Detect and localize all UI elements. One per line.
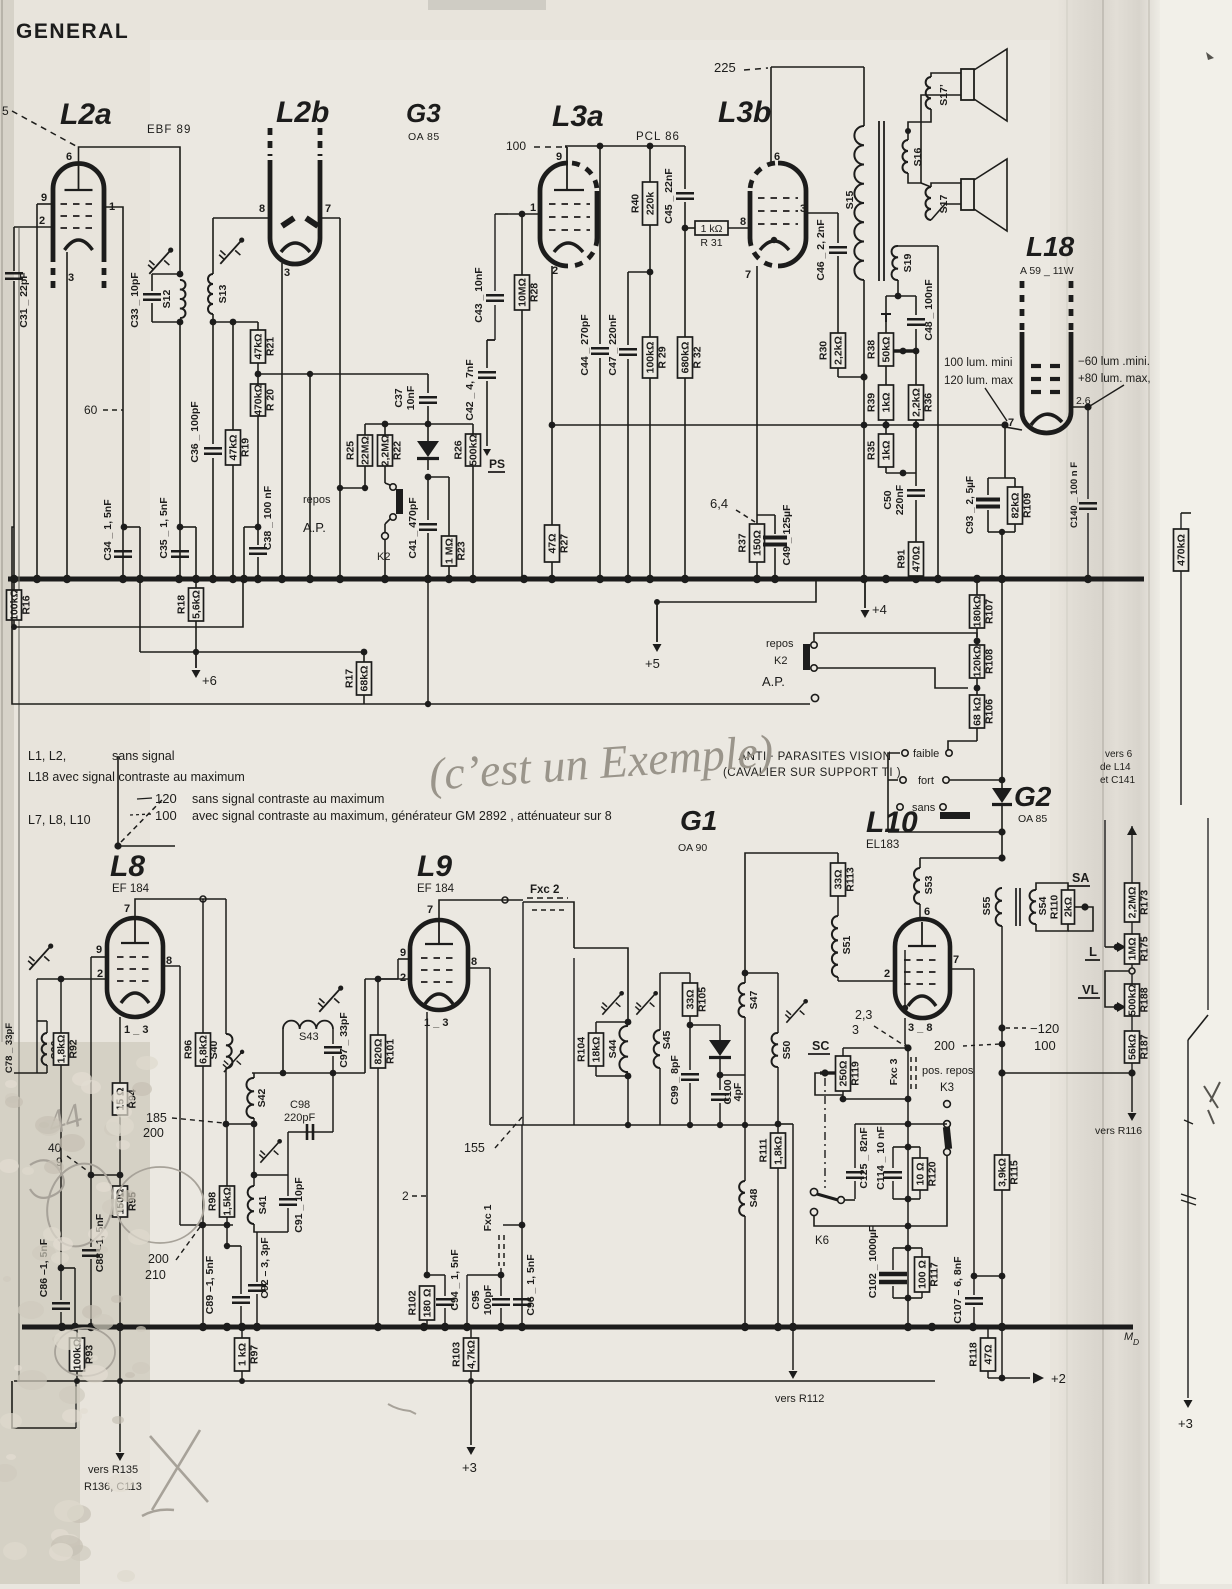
resistor R23 1M bbox=[428, 477, 468, 579]
svg-text:+5: +5 bbox=[645, 656, 660, 671]
wire Fxc1 column bbox=[519, 1125, 526, 1327]
pin 8 label bbox=[740, 216, 746, 228]
capacitor C93 2,5uF bbox=[965, 476, 1005, 534]
label -120 100 pointer bbox=[998, 1021, 1059, 1053]
wire L9 pin8 bbox=[468, 968, 490, 1125]
resistor R95 150 bbox=[113, 1175, 139, 1327]
svg-text:R175: R175 bbox=[1139, 936, 1151, 961]
resistor R94 15 bbox=[113, 1083, 139, 1175]
svg-text:vers 6: vers 6 bbox=[1105, 749, 1133, 760]
inductor S16 bbox=[903, 140, 925, 173]
inductor S43 tank bbox=[252, 1012, 365, 1077]
label SC bbox=[808, 1039, 830, 1054]
svg-text:S54: S54 bbox=[1037, 897, 1049, 916]
legend 120 bbox=[155, 791, 384, 806]
svg-text:6,4: 6,4 bbox=[710, 496, 728, 511]
wire L10 top lines bbox=[888, 832, 1002, 858]
resistor R109 82k bbox=[999, 478, 1034, 579]
svg-text:C99 _ 8pF: C99 _ 8pF bbox=[669, 1055, 681, 1105]
svg-text:L1, L2,: L1, L2, bbox=[28, 749, 66, 763]
svg-text:L3b: L3b bbox=[718, 96, 771, 129]
svg-text:vers R112: vers R112 bbox=[775, 1393, 824, 1405]
svg-text:K6: K6 bbox=[815, 1235, 829, 1247]
inductor S17 bbox=[921, 183, 950, 220]
svg-text:L: L bbox=[1089, 944, 1097, 959]
inductor S41 tank bbox=[248, 1175, 305, 1233]
svg-text:3: 3 bbox=[284, 267, 290, 279]
svg-text:R188: R188 bbox=[1139, 987, 1151, 1012]
svg-text:4pF: 4pF bbox=[732, 1082, 744, 1101]
svg-text:1,8kΩ: 1,8kΩ bbox=[773, 1136, 785, 1165]
resistor R106 68k bbox=[948, 688, 996, 750]
tube L3a label bbox=[552, 100, 604, 133]
label 155 pointer bbox=[464, 1116, 523, 1155]
svg-text:Fxc 1: Fxc 1 bbox=[482, 1204, 494, 1231]
legend L1 L2 sans signal bbox=[28, 749, 175, 763]
tube L2b bbox=[270, 128, 320, 264]
svg-text:3,9kΩ: 3,9kΩ bbox=[997, 1158, 1009, 1187]
svg-text:vers R135: vers R135 bbox=[88, 1464, 138, 1476]
svg-text:C34 _ 1, 5nF: C34 _ 1, 5nF bbox=[102, 499, 114, 561]
svg-text:R97: R97 bbox=[249, 1345, 261, 1364]
svg-text:S55: S55 bbox=[981, 897, 993, 916]
label 60 with pointer bbox=[84, 403, 123, 417]
svg-text:S44: S44 bbox=[607, 1040, 619, 1059]
tube L10 label bbox=[866, 806, 918, 851]
wire screen grid line bbox=[365, 421, 473, 428]
svg-text:180kΩ: 180kΩ bbox=[972, 596, 984, 628]
svg-text:G1: G1 bbox=[680, 805, 717, 836]
wire L tap line bbox=[1105, 820, 1126, 952]
svg-text:100: 100 bbox=[1034, 1038, 1056, 1053]
svg-text:C102 _ 1000µF: C102 _ 1000µF bbox=[867, 1225, 879, 1298]
pencil squiggle bbox=[30, 1160, 64, 1198]
svg-text:S41: S41 bbox=[257, 1196, 269, 1215]
svg-text:1: 1 bbox=[530, 202, 536, 214]
switch contact faible bbox=[902, 748, 952, 760]
wire S12 tank bottom bbox=[152, 322, 180, 579]
svg-text:68kΩ: 68kΩ bbox=[359, 666, 371, 692]
svg-text:R37: R37 bbox=[737, 533, 749, 552]
svg-text:+3: +3 bbox=[1178, 1416, 1193, 1431]
svg-text:R16: R16 bbox=[21, 595, 33, 614]
wire L2a pin1 bbox=[104, 207, 123, 579]
pin 7 label bbox=[745, 269, 751, 281]
diode G2 label bbox=[1014, 781, 1052, 825]
pin 7 label bbox=[427, 904, 433, 916]
svg-text:PCL 86: PCL 86 bbox=[636, 131, 680, 143]
svg-text:R173: R173 bbox=[1139, 890, 1151, 915]
wire L10 pin7 bbox=[950, 969, 974, 1276]
inductor S48 bbox=[739, 1125, 760, 1327]
svg-text:1 kΩ: 1 kΩ bbox=[237, 1343, 249, 1366]
trimmer capacitor L9 input bbox=[313, 980, 350, 1018]
resistor R21 47k bbox=[251, 322, 277, 384]
label L bbox=[1085, 944, 1100, 960]
svg-text:1 _ 3: 1 _ 3 bbox=[124, 1024, 148, 1036]
pin 6 label bbox=[66, 151, 72, 163]
svg-text:225: 225 bbox=[714, 60, 736, 75]
svg-text:C96 _ 1, 5nF: C96 _ 1, 5nF bbox=[525, 1254, 537, 1316]
svg-text:R30: R30 bbox=[818, 341, 830, 360]
svg-text:sans signal contraste au m: sans signal contraste au maximum bbox=[192, 792, 384, 806]
svg-text:2,2MΩ: 2,2MΩ bbox=[1127, 887, 1139, 919]
inductor S47 bbox=[720, 970, 760, 1125]
resistor R103 4,7k below bus bbox=[451, 1327, 479, 1381]
svg-text:R18: R18 bbox=[176, 595, 188, 614]
svg-text:C88 –1, 5nF: C88 –1, 5nF bbox=[94, 1213, 106, 1272]
svg-text:R119: R119 bbox=[850, 1061, 862, 1086]
capacitor C107 6,8nF bbox=[952, 1256, 1002, 1327]
resistor R187 56k bbox=[1125, 1031, 1151, 1077]
resistor R92 1,8k bbox=[54, 979, 80, 1271]
svg-text:PS: PS bbox=[489, 457, 505, 471]
svg-text:R115: R115 bbox=[1009, 1160, 1021, 1185]
svg-text:EF 184: EF 184 bbox=[112, 883, 150, 895]
resistor R37 150 bbox=[737, 524, 765, 579]
tube L3b label bbox=[718, 96, 771, 129]
pin 3-8 label bbox=[908, 1022, 932, 1034]
wire L2a pin6 to EBF line bbox=[79, 147, 181, 274]
inductor S19 bbox=[892, 246, 938, 579]
node vers R112 arrow bbox=[775, 1327, 824, 1405]
switch K3 blade bbox=[908, 1121, 952, 1226]
svg-text:R28: R28 bbox=[529, 283, 541, 302]
svg-text:R108: R108 bbox=[984, 649, 996, 674]
svg-text:C48 _ 100nF: C48 _ 100nF bbox=[923, 279, 935, 341]
trimmer capacitor S42 bbox=[218, 1045, 249, 1077]
resistor R173 2,2M bbox=[1125, 883, 1151, 934]
svg-text:100: 100 bbox=[506, 139, 526, 153]
capacitor C33 10pF bbox=[129, 272, 180, 328]
wire R38 wiper tap bbox=[881, 314, 919, 354]
svg-text:R118: R118 bbox=[968, 1342, 980, 1367]
label K2 bbox=[377, 551, 390, 563]
svg-text:VL: VL bbox=[1082, 982, 1099, 997]
svg-text:R113: R113 bbox=[845, 867, 857, 892]
wire R92 to bus stub bbox=[61, 1268, 75, 1327]
resistor R115 3,9k bbox=[995, 1073, 1021, 1279]
svg-text:220k: 220k bbox=[645, 192, 657, 216]
svg-text:2,3: 2,3 bbox=[855, 1008, 872, 1022]
svg-text:R17: R17 bbox=[344, 669, 356, 688]
svg-text:R110: R110 bbox=[1049, 895, 1061, 920]
svg-text:R98: R98 bbox=[207, 1192, 219, 1211]
svg-text:7: 7 bbox=[325, 203, 331, 215]
pin 6 label bbox=[924, 906, 930, 918]
wire +6 feed line bbox=[121, 524, 368, 656]
resistor R16 100k bbox=[7, 579, 244, 630]
capacitor C41 470pF bbox=[407, 477, 437, 579]
capacitor C78 33pF stub bbox=[4, 1023, 15, 1073]
svg-text:60: 60 bbox=[84, 403, 98, 417]
resistor R32 680k bbox=[678, 228, 704, 579]
svg-text:C78 _ 33pF: C78 _ 33pF bbox=[4, 1023, 15, 1073]
svg-text:120: 120 bbox=[155, 791, 177, 806]
svg-text:R36: R36 bbox=[923, 393, 935, 412]
svg-text:S50: S50 bbox=[781, 1041, 793, 1060]
resistor R188 500k bbox=[1125, 974, 1151, 1031]
capacitor C98 220pF bbox=[284, 1073, 333, 1175]
svg-text:2: 2 bbox=[884, 968, 890, 980]
diode G2 (OA 85) bbox=[992, 579, 1012, 862]
pin 2 label bbox=[552, 265, 558, 277]
svg-text:C125 _ 82nF: C125 _ 82nF bbox=[858, 1127, 870, 1189]
svg-text:82kΩ: 82kΩ bbox=[1010, 493, 1022, 519]
wire L2a pin9 bbox=[37, 204, 53, 579]
wire R115 to bus bbox=[1001, 1276, 1003, 1378]
svg-text:S47: S47 bbox=[748, 991, 760, 1010]
resistor R22 2,2M bbox=[378, 424, 404, 483]
wire left paper border bbox=[18, 228, 20, 1380]
svg-text:S12: S12 bbox=[161, 290, 173, 309]
svg-text:5: 5 bbox=[2, 104, 9, 118]
pin 1-3 label bbox=[424, 1017, 448, 1029]
svg-text:S43: S43 bbox=[299, 1031, 319, 1043]
transformer core S55-S54 bbox=[1016, 888, 1020, 926]
svg-text:C91 _ 10pF: C91 _ 10pF bbox=[293, 1177, 305, 1233]
speaker 1 bbox=[921, 49, 1007, 183]
svg-text:faible: faible bbox=[913, 748, 939, 760]
svg-text:R109: R109 bbox=[1022, 493, 1034, 518]
svg-text:−120: −120 bbox=[1030, 1021, 1059, 1036]
trimmer capacitor S41 bbox=[254, 1134, 287, 1168]
svg-text:9: 9 bbox=[400, 947, 406, 959]
svg-text:10MΩ: 10MΩ bbox=[517, 278, 529, 307]
svg-text:470kΩ: 470kΩ bbox=[253, 384, 265, 416]
pin 9 label bbox=[556, 151, 562, 163]
svg-text:+4: +4 bbox=[872, 602, 887, 617]
svg-text:4,7kΩ: 4,7kΩ bbox=[466, 1340, 478, 1369]
svg-text:fort: fort bbox=[918, 775, 934, 787]
capacitor C96 1,5nF bbox=[513, 1254, 537, 1316]
switch K2 contact bbox=[382, 483, 403, 579]
svg-text:120kΩ: 120kΩ bbox=[972, 646, 984, 678]
pencil squiggle right bbox=[388, 1404, 416, 1414]
svg-text:500kΩ: 500kΩ bbox=[468, 434, 480, 466]
pencil oval left bbox=[38, 1156, 122, 1254]
svg-text:OA 85: OA 85 bbox=[408, 131, 440, 143]
pin 7 label bbox=[325, 203, 331, 215]
svg-text:OA 85: OA 85 bbox=[1018, 813, 1047, 825]
wire R111 right branch bbox=[792, 1124, 794, 1327]
svg-text:R111: R111 bbox=[758, 1138, 770, 1162]
pin 9 label bbox=[400, 947, 406, 959]
tube L9 label bbox=[417, 850, 455, 895]
capacitor C88 1,5nF bbox=[82, 1175, 106, 1327]
wire detector bottom line bbox=[490, 1122, 778, 1128]
capacitor C89 1,5nF bbox=[204, 1246, 250, 1327]
svg-text:1,8kΩ: 1,8kΩ bbox=[56, 1035, 68, 1064]
svg-text:C114 _ 10 nF: C114 _ 10 nF bbox=[875, 1126, 887, 1190]
wire L10 cathode down bbox=[904, 1018, 911, 1052]
svg-text:820Ω: 820Ω bbox=[373, 1039, 385, 1065]
switch K2 (repos A.P.) bbox=[762, 633, 977, 689]
resistor R96 6,8k bbox=[183, 899, 211, 1327]
wire heater return bbox=[307, 371, 313, 579]
capacitor C43 10nF bbox=[473, 214, 508, 340]
capacitor C99 8pF bbox=[669, 1025, 699, 1125]
wire S19 bottom node bbox=[886, 280, 916, 299]
svg-text:R101: R101 bbox=[385, 1039, 397, 1064]
svg-text:C44 _ 270pF: C44 _ 270pF bbox=[579, 314, 591, 376]
legend 100 bbox=[155, 808, 612, 823]
resistor R113 33 bbox=[831, 853, 857, 916]
svg-text:L3a: L3a bbox=[552, 100, 604, 133]
capacitor C46 2,2nF bbox=[806, 213, 847, 333]
pin 7 label bbox=[1008, 417, 1014, 429]
svg-text:2,2kΩ: 2,2kΩ bbox=[911, 388, 923, 417]
svg-text:R91: R91 bbox=[896, 549, 908, 568]
inductor S40 bbox=[208, 899, 232, 1127]
svg-text:150Ω: 150Ω bbox=[752, 530, 764, 556]
resistor R117 100 bbox=[908, 1248, 941, 1298]
wire sans jumper bbox=[940, 812, 970, 819]
svg-text:68 kΩ: 68 kΩ bbox=[972, 697, 984, 726]
wire ground bus MD (bottom) bbox=[22, 1323, 1133, 1331]
svg-text:L9: L9 bbox=[417, 850, 452, 883]
svg-text:L2a: L2a bbox=[60, 98, 112, 131]
svg-text:A.P.: A.P. bbox=[303, 520, 326, 535]
wire L9 pin9 bbox=[365, 959, 410, 979]
svg-text:L7, L8, L10: L7, L8, L10 bbox=[28, 813, 91, 827]
svg-text:C94 _ 1, 5nF: C94 _ 1, 5nF bbox=[449, 1249, 461, 1311]
svg-text:1,5kΩ: 1,5kΩ bbox=[222, 1187, 234, 1216]
capacitor C125 82nF bbox=[846, 1124, 908, 1199]
svg-text:repos: repos bbox=[766, 638, 794, 650]
svg-text:D: D bbox=[1133, 1337, 1139, 1347]
svg-text:+6: +6 bbox=[202, 673, 217, 688]
svg-text:10nF: 10nF bbox=[405, 385, 417, 410]
svg-text:220pF: 220pF bbox=[284, 1112, 315, 1124]
svg-text:R 31: R 31 bbox=[700, 237, 722, 249]
svg-text:R21: R21 bbox=[265, 337, 277, 356]
label 225 with pointer bbox=[714, 60, 768, 75]
filter Fxc1 bbox=[467, 1204, 522, 1327]
resistor R175 1M bbox=[1125, 934, 1151, 974]
wire L3b pin7 down bbox=[756, 266, 758, 524]
capacitor C50 220nF bbox=[882, 473, 925, 542]
tube L3a type PCL 86 bbox=[636, 131, 680, 143]
svg-text:33Ω: 33Ω bbox=[833, 869, 845, 889]
svg-text:R39: R39 bbox=[866, 393, 878, 412]
resistor R91 470 bbox=[896, 542, 924, 579]
svg-text:L18: L18 bbox=[1026, 231, 1075, 262]
svg-text:C42 _ 4, 7nF: C42 _ 4, 7nF bbox=[464, 359, 476, 421]
pin 2 label bbox=[400, 972, 406, 984]
label VL bbox=[1078, 982, 1100, 998]
svg-text:S15: S15 bbox=[844, 191, 856, 210]
capacitor C48 100nF bbox=[907, 279, 935, 351]
transformer core bbox=[879, 121, 884, 281]
pen speck top right bbox=[1206, 52, 1214, 60]
inductor S17p bbox=[926, 77, 950, 109]
capacitor C34 1,5nF bbox=[102, 499, 132, 561]
label -60/+80 lum bbox=[1078, 356, 1151, 406]
resistor R30 2,2k bbox=[818, 333, 868, 381]
svg-text:7: 7 bbox=[745, 269, 751, 281]
diode G3 label bbox=[406, 98, 441, 143]
svg-text:EL183: EL183 bbox=[866, 839, 899, 851]
wire L8 cathode bbox=[119, 1017, 121, 1083]
svg-text:C50: C50 bbox=[882, 490, 894, 509]
svg-text:C31 _ 22pF: C31 _ 22pF bbox=[18, 272, 30, 328]
diode G1 label bbox=[678, 805, 717, 854]
svg-text:G3: G3 bbox=[406, 98, 441, 128]
inductor S55 bbox=[981, 888, 1002, 1073]
svg-text:180 Ω: 180 Ω bbox=[422, 1289, 434, 1318]
svg-text:EBF 89: EBF 89 bbox=[147, 124, 191, 136]
inductor S13 bbox=[208, 218, 229, 325]
svg-text:200: 200 bbox=[143, 1126, 164, 1140]
title GENERAL bbox=[16, 20, 129, 43]
svg-text:S42: S42 bbox=[256, 1089, 268, 1108]
svg-text:de L14: de L14 bbox=[1100, 762, 1131, 773]
label 5 with pointer bbox=[2, 104, 76, 146]
tube L18 label bbox=[1020, 231, 1075, 277]
svg-text:1 kΩ: 1 kΩ bbox=[701, 223, 723, 235]
resistor R97 1k below bus bbox=[235, 1327, 261, 1381]
diode G3 (OA 85) bbox=[417, 441, 439, 480]
wire L2b pin3 cathode bbox=[281, 263, 283, 579]
label 2,3 3 pointer bbox=[852, 1008, 905, 1046]
svg-text:S19: S19 bbox=[902, 254, 914, 273]
svg-text:33Ω: 33Ω bbox=[685, 989, 697, 1009]
resistor R98 1,5k bbox=[207, 1124, 235, 1249]
svg-text:S53: S53 bbox=[923, 876, 935, 895]
wire grid line to diode bbox=[258, 373, 428, 375]
resistor R19 47k bbox=[226, 322, 252, 579]
wire S43 tank to pin2 bbox=[364, 979, 366, 1073]
svg-text:47kΩ: 47kΩ bbox=[228, 435, 240, 461]
legend L7 L8 L10 bbox=[28, 813, 91, 827]
node vers R135 arrow bbox=[84, 1327, 142, 1493]
capacitor C92 3,3pF bbox=[248, 1232, 271, 1327]
svg-text:G2: G2 bbox=[1014, 781, 1052, 812]
svg-text:C98: C98 bbox=[290, 1099, 310, 1111]
svg-text:+80 lum. max,: +80 lum. max, bbox=[1078, 373, 1151, 385]
svg-text:R187: R187 bbox=[1139, 1034, 1151, 1059]
resistor R119 250 bbox=[836, 1048, 912, 1102]
capacitor C95 100pF bbox=[470, 1275, 510, 1327]
svg-text:100pF: 100pF bbox=[482, 1284, 494, 1315]
svg-text:S13: S13 bbox=[217, 285, 229, 304]
svg-text:OA 90: OA 90 bbox=[678, 842, 707, 854]
capacitor C140 100nF bbox=[1069, 407, 1097, 579]
svg-text:R 29: R 29 bbox=[657, 346, 669, 368]
svg-text:2,2MΩ: 2,2MΩ bbox=[380, 435, 392, 467]
svg-text:2,2kΩ: 2,2kΩ bbox=[833, 336, 845, 365]
capacitor C45 22nF bbox=[663, 146, 694, 231]
resistor R93 100k below bus bbox=[70, 1327, 96, 1381]
pencil X mark bbox=[150, 1430, 208, 1510]
wire lower return line bbox=[14, 1378, 935, 1384]
wire L2b pin8 bbox=[213, 217, 270, 219]
svg-text:2: 2 bbox=[39, 215, 45, 227]
svg-text:C49 _ 125µF: C49 _ 125µF bbox=[781, 504, 793, 566]
svg-text:9: 9 bbox=[556, 151, 562, 163]
resistor R26 500k bbox=[453, 424, 481, 579]
svg-text:R106: R106 bbox=[984, 699, 996, 724]
svg-text:C47 _ 220nF: C47 _ 220nF bbox=[607, 314, 619, 376]
tube L10 (EL 183) bbox=[895, 919, 950, 1018]
svg-text:7: 7 bbox=[124, 903, 130, 915]
inductor S12 bbox=[161, 271, 185, 326]
pen mark right margin bbox=[1204, 1082, 1220, 1124]
resistor R35 1k bbox=[866, 434, 917, 476]
svg-text:SA: SA bbox=[1072, 871, 1089, 885]
label 100 with pointer bbox=[506, 139, 565, 153]
